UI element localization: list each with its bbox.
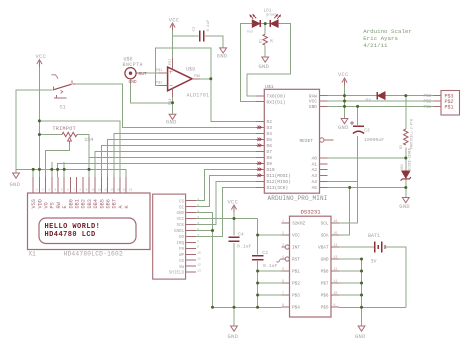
svg-text:C3: C3 <box>364 128 370 134</box>
Arduino pin A2 <box>320 169 328 171</box>
wire DS3231 pin2 VCC <box>258 234 282 236</box>
junction VCC symbol on RAW line <box>343 94 346 97</box>
junction P$8 node <box>360 270 363 273</box>
svg-text:P$6: P$6 <box>194 74 200 79</box>
svg-text:HELLO WORLD!: HELLO WORLD! <box>45 223 101 231</box>
svg-text:SDA: SDA <box>321 234 329 239</box>
wire op-amp feedback loop output to inverting input <box>155 48 211 86</box>
shield pin 6 GND1 <box>186 229 196 231</box>
svg-text:0.1uF: 0.1uF <box>263 263 278 269</box>
svg-text:INT: INT <box>292 246 300 251</box>
svg-text:C2: C2 <box>262 250 268 256</box>
wire Arduino A4 to DS3231 SCL <box>328 182 358 224</box>
shield pin 3 GND <box>186 212 196 214</box>
svg-text:P$1: P$1 <box>445 104 454 110</box>
svg-text:12: 12 <box>334 267 338 271</box>
svg-text:1K: 1K <box>270 39 274 43</box>
wire Arduino VCC line to connector <box>328 100 434 102</box>
svg-text:0.1uF: 0.1uF <box>237 243 252 249</box>
junction ground rail at C2 branch <box>256 306 259 309</box>
svg-text:X1: X1 <box>29 251 37 258</box>
shield pin 8 IRQ <box>186 241 196 243</box>
wire LCD pin4 PS drop <box>51 162 53 177</box>
svg-text:D13(SCK): D13(SCK) <box>267 185 289 191</box>
wire Arduino D5 to LCD pin13 DB6 <box>108 139 256 177</box>
GND symbol below DS3231 ground bus <box>358 326 365 331</box>
DS3231 pin 11 P$7 <box>331 282 339 284</box>
wire DS3231 pin6 P$2 <box>258 282 282 284</box>
svg-text:VCC: VCC <box>169 18 180 24</box>
junction DS3231 P$2 node <box>256 282 259 285</box>
Arduino pin D9 <box>256 162 264 164</box>
wire VCC symbol to C1 rail <box>172 28 174 36</box>
DS3231 pin 4 RST <box>282 258 286 260</box>
LCD pin 6 E <box>63 177 65 193</box>
LCD pin 10 DB3 <box>88 177 90 193</box>
photocell R2 <box>404 129 408 145</box>
svg-text:VCC: VCC <box>338 72 349 78</box>
svg-text:2: 2 <box>197 204 199 207</box>
GND symbol below zener <box>402 198 409 203</box>
DS3231 pin 2 VCC <box>282 234 290 236</box>
svg-text:GND: GND <box>309 104 317 110</box>
wire Arduino GND line to connector <box>328 105 434 107</box>
svg-text:DB7: DB7 <box>112 199 118 208</box>
junction GND bus at LCD pin1 <box>32 168 35 171</box>
junction bus at LCD pin5 <box>56 168 59 171</box>
svg-text:12: 12 <box>197 264 201 267</box>
svg-text:ALD1701: ALD1701 <box>187 93 210 99</box>
svg-text:GND: GND <box>228 334 239 340</box>
svg-text:VCC: VCC <box>228 200 239 206</box>
svg-text:32KHZ: 32KHZ <box>292 222 306 227</box>
wire DS3231 GND pin to ground bus <box>339 258 362 260</box>
svg-text:DB4: DB4 <box>93 199 99 208</box>
svg-text:C4: C4 <box>238 231 244 237</box>
DS3231 pin 10 P$6 <box>331 294 339 296</box>
svg-text:16: 16 <box>334 219 338 223</box>
wire Arduino D4 to LCD pin14 DB7 <box>114 133 256 177</box>
svg-text:4: 4 <box>197 216 199 219</box>
svg-text:GND: GND <box>10 182 21 188</box>
LCD pin 12 DB5 <box>100 177 102 193</box>
shield pin 4 VCC <box>186 218 196 220</box>
svg-text:D1: D1 <box>366 98 372 104</box>
op-amp U$9 ALD1701 <box>168 67 193 91</box>
svg-text:16: 16 <box>129 189 133 192</box>
shield pin 12 SW <box>186 265 196 267</box>
GND symbol below GND line <box>341 119 348 124</box>
wire R2 to A0 tap <box>405 148 407 172</box>
svg-text:U$4: U$4 <box>85 137 94 143</box>
svg-text:ARDUINO_PRO_MINI: ARDUINO_PRO_MINI <box>268 195 328 202</box>
LCD display window <box>39 218 136 244</box>
svg-text:GND1: GND1 <box>174 230 185 234</box>
wire GND line down to C3 <box>357 106 359 125</box>
svg-text:P$2: P$2 <box>424 100 432 105</box>
svg-text:P$3: P$3 <box>424 94 432 99</box>
svg-text:RST: RST <box>292 258 300 263</box>
svg-text:7: 7 <box>197 234 199 237</box>
junction VDD column crossing bus <box>38 168 41 171</box>
Arduino pin RXI(D1) <box>256 101 264 103</box>
LCD pin 7 DB0 <box>69 177 71 193</box>
DS3231 pin 1 32KHZ <box>282 222 290 224</box>
svg-text:VCC: VCC <box>292 234 300 239</box>
wire C3 bottom to A4 corner <box>357 136 359 182</box>
svg-text:DS3231: DS3231 <box>301 209 322 216</box>
shield pin 13 SHIELD <box>186 271 196 273</box>
svg-text:1: 1 <box>282 219 284 223</box>
wire trimpot right end to GND bus <box>77 135 89 170</box>
wire DS3231 P$6 pin to ground bus <box>339 294 362 296</box>
Arduino pin D5 <box>256 138 264 140</box>
wire GND bus stub to ground symbol <box>15 169 17 173</box>
Arduino pin D6 <box>256 144 264 146</box>
resistor R1 1K <box>263 34 267 45</box>
wire VCC rail to LCD pin2 VDD (vertical x=39.4) <box>38 63 40 177</box>
junction ground bus corner <box>360 306 363 309</box>
svg-text:P$8: P$8 <box>321 270 329 275</box>
svg-text:RAW: RAW <box>309 93 317 99</box>
svg-text:DB3: DB3 <box>87 199 93 208</box>
svg-text:GND: GND <box>166 120 177 126</box>
connector pin P$3 <box>434 95 442 97</box>
wire Arduino D8 to LCD pin10 DB3 <box>89 157 256 177</box>
junction LED common node <box>264 22 267 25</box>
wire LCD pin1 VSS stub from bus <box>32 169 34 177</box>
svg-text:D12(MISO): D12(MISO) <box>267 179 291 185</box>
junction VCC to backlight tap <box>38 119 41 122</box>
LCD pin 2 VDD <box>38 177 40 193</box>
LCD pin 16 K <box>125 177 127 193</box>
Arduino pin D12(MISO) <box>256 180 264 182</box>
wire zener GND stub to symbol <box>405 188 407 198</box>
Arduino pin A0 <box>320 157 328 159</box>
junction trimpot right to GND bus <box>88 168 91 171</box>
wire VCC to LCD pin15 A backlight <box>39 121 120 177</box>
wire DS3231 P$8 pin to ground bus <box>339 270 362 272</box>
svg-text:15: 15 <box>334 231 338 235</box>
junction bus at LCD pin4 <box>50 168 53 171</box>
DS3231 pin 5 P$1 <box>282 270 290 272</box>
svg-text:P$1: P$1 <box>292 270 300 275</box>
junction op-amp ground node <box>171 101 174 104</box>
svg-text:DB0: DB0 <box>68 199 74 208</box>
DS3231 RST pin hook <box>277 259 283 262</box>
shield pin 11 CD <box>186 259 196 261</box>
svg-text:P$4: P$4 <box>292 306 300 311</box>
svg-text:U$2: U$2 <box>400 164 404 170</box>
LCD pin 8 DB1 <box>76 177 78 193</box>
LCD module X1 HD44780LCD-1602 <box>28 193 151 250</box>
wire RAW line to photocell R2 <box>405 96 407 129</box>
svg-text:A4: A4 <box>312 179 318 185</box>
svg-text:VDD: VDD <box>37 199 43 208</box>
DS3231 pin 6 P$2 <box>282 282 290 284</box>
wire A5/SDA drop to DS3231 SDA <box>339 188 350 236</box>
junction GND symbol stem on GND line <box>343 105 346 108</box>
shield pin 9 P9 <box>186 247 196 249</box>
svg-text:D9: D9 <box>267 161 273 167</box>
svg-text:BNCPTH: BNCPTH <box>123 62 143 68</box>
svg-text:D10: D10 <box>267 167 275 173</box>
svg-text:DB5: DB5 <box>99 199 105 208</box>
svg-text:P9: P9 <box>179 248 185 252</box>
wire battery negative return loop <box>385 247 406 307</box>
svg-text:10: 10 <box>334 291 338 295</box>
svg-text:GND: GND <box>355 334 366 340</box>
SD shield connector <box>153 194 186 279</box>
wire shield GND pin to ground rail <box>196 213 213 308</box>
svg-text:GND: GND <box>129 79 137 85</box>
svg-text:A5: A5 <box>312 185 318 191</box>
svg-text:D11(MOSI): D11(MOSI) <box>267 173 291 179</box>
wire Arduino D11 to shield DI <box>196 175 256 206</box>
svg-text:6: 6 <box>282 279 284 283</box>
wire Arduino D10 to shield CS <box>196 169 256 200</box>
svg-text:PS: PS <box>50 202 56 208</box>
svg-text:GND: GND <box>259 64 270 70</box>
svg-text:U$9: U$9 <box>186 67 195 73</box>
diode D1 <box>378 92 385 99</box>
wire VCC rail left of C1 <box>173 35 199 37</box>
Arduino pin RAW <box>320 95 328 97</box>
wire shield GND1 pin stub <box>196 229 213 231</box>
wire R1 to GND symbol <box>264 46 266 57</box>
capacitor C1 0.1uF <box>199 31 201 42</box>
wire ground node stub to GND symbol <box>172 103 174 114</box>
svg-text:S1: S1 <box>60 105 66 111</box>
shield pin 10 WP <box>186 253 196 255</box>
svg-text:P$7: P$7 <box>168 59 173 65</box>
DS3231 pin 8 P$4 <box>282 306 290 308</box>
svg-text:VCC: VCC <box>176 218 184 222</box>
wire Arduino D13 to shield DO <box>196 187 256 236</box>
junction DS3231 GND pin node <box>360 258 363 261</box>
svg-text:8: 8 <box>282 303 284 307</box>
junction DS3231 VCC pin2 node <box>256 234 259 237</box>
wire op-amp V- pin to ground node <box>172 97 174 103</box>
svg-text:P$2: P$2 <box>156 81 162 86</box>
wire BNC OUT to op-amp non-inverting input <box>140 72 159 74</box>
svg-text:11: 11 <box>197 258 201 261</box>
shield pin 2 DI <box>186 206 196 208</box>
connector pin P$2 <box>434 100 442 102</box>
LCD pin 1 VSS <box>32 177 34 193</box>
svg-text:DIODE-ZENER: DIODE-ZENER <box>408 148 412 170</box>
svg-text:DI: DI <box>179 206 185 210</box>
Arduino pin D7 <box>256 150 264 152</box>
svg-text:D4: D4 <box>267 131 273 137</box>
Arduino pin A3 <box>320 175 328 177</box>
svg-text:D8: D8 <box>267 155 273 161</box>
svg-text:WP: WP <box>179 254 185 258</box>
wire DS3231 pin7 P$3 <box>258 294 282 296</box>
svg-text:TRIMPOT: TRIMPOT <box>53 126 76 132</box>
svg-text:green: green <box>266 13 276 18</box>
svg-text:14: 14 <box>334 243 338 247</box>
Arduino pin A4 <box>320 181 328 183</box>
wire Arduino A5 line to zener bottom node <box>328 187 406 189</box>
svg-text:9: 9 <box>334 303 336 307</box>
svg-text:SHIELD: SHIELD <box>169 272 185 276</box>
svg-text:VBAT: VBAT <box>318 246 329 251</box>
wire LED common junction <box>260 23 270 25</box>
wire shield VCC pin over to DS3231 VCC net <box>196 218 258 220</box>
svg-text:SCL: SCL <box>321 222 329 227</box>
LCD pin 11 DB4 <box>94 177 96 193</box>
svg-text:D2: D2 <box>267 119 273 125</box>
svg-text:A1: A1 <box>312 162 318 168</box>
LCD pin 4 PS <box>51 177 53 193</box>
junction C3 branch on GND line <box>356 105 359 108</box>
svg-text:RESET: RESET <box>299 138 313 144</box>
svg-text:SW: SW <box>179 266 185 270</box>
junction DS3231 P$1 node <box>256 270 259 273</box>
svg-text:P$1: P$1 <box>424 105 432 110</box>
svg-text:6: 6 <box>197 228 199 231</box>
svg-text:HD44780 LCD: HD44780 LCD <box>45 231 96 239</box>
wire trimpot left end to VCC rail <box>39 134 62 136</box>
wire Arduino A0 to photocell divider tap <box>328 157 406 159</box>
wire GND bus under LCD to pin16 K <box>16 169 126 177</box>
svg-text:GND: GND <box>399 204 410 210</box>
GND symbol left of LCD <box>13 173 20 178</box>
LCD pin 14 DB7 <box>113 177 115 193</box>
DS3231 pin 3 INT <box>282 246 286 248</box>
junction op-amp output feedback node <box>209 77 212 80</box>
wire Arduino RAW line to diode D1 and connector <box>328 95 378 97</box>
svg-text:DO: DO <box>179 236 185 240</box>
svg-text:CS: CS <box>179 200 185 204</box>
svg-text:A3: A3 <box>312 173 318 179</box>
DS3231 pin 15 SDA <box>331 234 339 236</box>
svg-text:DB1: DB1 <box>75 199 81 208</box>
svg-text:3: 3 <box>282 243 284 247</box>
svg-text:R2: R2 <box>400 145 404 149</box>
wire LED junction to resistor R1 <box>264 24 266 35</box>
svg-text:DB6: DB6 <box>106 199 112 208</box>
Arduino pin D3 <box>256 126 264 128</box>
zener diode U$2 <box>402 171 410 178</box>
svg-text:P$2: P$2 <box>292 282 300 287</box>
svg-text:1: 1 <box>197 198 199 201</box>
svg-text:OUT: OUT <box>139 71 147 77</box>
junction ground rail at C4 branch <box>233 306 236 309</box>
junction ground rail at x212 <box>211 306 214 309</box>
svg-text:GND: GND <box>338 125 349 131</box>
junction SDA branch on A5 line <box>348 186 351 189</box>
DS3231 pin 7 P$3 <box>282 294 290 296</box>
wire op-amp V+ pin up to VCC rail <box>172 36 174 58</box>
svg-text:GND: GND <box>217 54 228 60</box>
wire GND stub below C4 rail <box>233 307 235 326</box>
svg-text:2: 2 <box>282 231 284 235</box>
shield pin 7 DO <box>186 235 196 237</box>
GND symbol below C4 rail <box>231 326 238 331</box>
wire DS3231 P$5 row to battery return <box>339 306 406 308</box>
Arduino pin GND <box>320 105 328 107</box>
svg-text:P$6: P$6 <box>321 294 329 299</box>
junction zener bottom tap <box>404 186 407 189</box>
svg-text:red: red <box>247 30 253 35</box>
polarized capacitor C3 10000uF <box>353 125 364 127</box>
svg-text:TXO(D0): TXO(D0) <box>267 94 286 100</box>
svg-text:4/21/11: 4/21/11 <box>363 42 388 49</box>
svg-text:C1: C1 <box>193 26 197 31</box>
junction VCC symbol stem on VCC line <box>343 100 346 103</box>
svg-text:10: 10 <box>197 252 201 255</box>
svg-text:10000uF: 10000uF <box>364 137 384 143</box>
wire DS3231 pin5 P$1 <box>258 270 282 272</box>
connector pin P$1 <box>434 105 442 107</box>
wire VCC symbol through C4 down to ground rail <box>233 209 235 236</box>
junction P$6 node <box>360 294 363 297</box>
svg-text:13: 13 <box>334 255 338 259</box>
DS3231 pin 9 P$5 <box>331 306 339 308</box>
svg-text:R1: R1 <box>259 39 263 43</box>
wire VCC symbol stem through power lines to GND symbol <box>344 83 346 119</box>
svg-text:BAT1: BAT1 <box>368 233 380 239</box>
wire Arduino D12 to shield SCK <box>196 181 256 224</box>
svg-text:5: 5 <box>197 222 199 225</box>
svg-text:VCC: VCC <box>36 54 47 60</box>
DS3231 pin 12 P$8 <box>331 270 339 272</box>
svg-text:E: E <box>62 205 68 208</box>
Arduino pin D13(SCK) <box>256 186 264 188</box>
wire op-amp output to Arduino D2 <box>199 79 256 122</box>
GND symbol right of C1 <box>220 48 227 53</box>
Arduino pin A5 <box>320 187 328 189</box>
Arduino pin VCC <box>320 100 328 102</box>
wire ground bus stub to GND symbol <box>361 307 363 326</box>
svg-text:P$7: P$7 <box>321 282 329 287</box>
svg-text:VO: VO <box>44 202 50 208</box>
Arduino pin D2 <box>256 120 264 122</box>
svg-text:4: 4 <box>282 255 284 259</box>
svg-text:9: 9 <box>197 246 199 249</box>
junction VCC at shield pin4 <box>233 217 236 220</box>
svg-text:8: 8 <box>197 240 199 243</box>
svg-text:RXI(D1): RXI(D1) <box>267 99 286 105</box>
junction A0 tap at photocell <box>404 157 407 160</box>
svg-text:GND: GND <box>176 212 184 216</box>
svg-text:13: 13 <box>197 270 201 273</box>
wire zener to GND tap <box>405 178 407 188</box>
wire bottom ground rail <box>213 306 282 308</box>
svg-text:D6: D6 <box>267 143 273 149</box>
svg-text:D3: D3 <box>267 125 273 131</box>
wire VCC rail right of C1 to GND drop <box>205 36 223 48</box>
junction bus at LCD pin6 <box>63 168 66 171</box>
capacitor C4 0.1uF <box>228 236 239 238</box>
DS3231 pin 13 GND <box>331 258 339 260</box>
junction DS3231 P$3 node <box>256 294 259 297</box>
capacitor C2 0.1uF <box>252 255 263 257</box>
junction photocell top on RAW line <box>404 94 407 97</box>
svg-text:GND: GND <box>321 258 329 263</box>
svg-text:HD44780LCD-1602: HD44780LCD-1602 <box>64 251 123 258</box>
svg-text:3: 3 <box>197 210 199 213</box>
LCD pin 5 RW <box>57 177 59 193</box>
wire trimpot wiper to LCD pin3 VO <box>46 142 70 177</box>
svg-text:D5: D5 <box>267 137 273 143</box>
wire Arduino D9 to LCD pin5 RW <box>58 163 256 177</box>
DS3231 pin 16 SCL <box>331 222 339 224</box>
LCD pin 15 A <box>119 177 121 193</box>
svg-text:VSS: VSS <box>31 199 37 208</box>
